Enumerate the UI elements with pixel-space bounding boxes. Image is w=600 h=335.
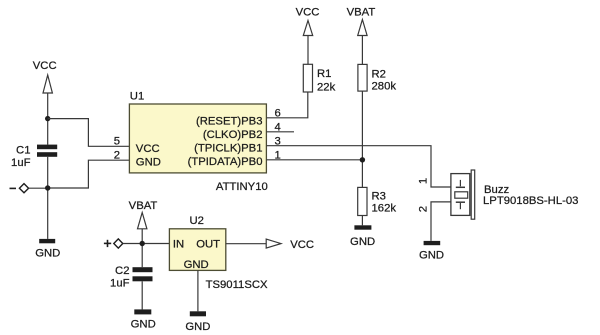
svg-text:GND: GND <box>185 321 210 333</box>
label R2 280k <box>372 69 397 93</box>
resistor R2 <box>358 64 367 91</box>
svg-text:1uF: 1uF <box>110 277 130 289</box>
buzzer Buzz body <box>451 174 470 216</box>
svg-text:OUT: OUT <box>196 238 220 250</box>
svg-text:GND: GND <box>131 319 156 331</box>
svg-text:VCC: VCC <box>33 60 57 72</box>
svg-text:IN: IN <box>173 238 184 250</box>
wire VBAT down to C2 <box>141 229 143 267</box>
svg-text:LPT9018BS-HL-03: LPT9018BS-HL-03 <box>483 195 578 207</box>
wire R3 bottom to ground <box>361 216 363 226</box>
wire U1 pin 3 to buzzer pin 1 <box>266 146 451 187</box>
wire VCC to R1 top <box>307 36 309 65</box>
resistor R3 <box>358 187 367 215</box>
label C1 value 1uF <box>11 144 31 169</box>
ground (R3) <box>350 225 375 248</box>
wire U2 OUT to VCC arrow <box>226 243 266 245</box>
svg-text:VCC: VCC <box>136 143 160 155</box>
svg-text:2: 2 <box>417 206 429 212</box>
svg-text:R2: R2 <box>372 69 386 81</box>
wire VCC rail down to C1 <box>47 93 49 145</box>
wire U1 pin 1 to divider node <box>266 159 362 161</box>
svg-text:U2: U2 <box>190 215 204 227</box>
wire U1 pin 2 (GND) to ground rail <box>48 160 130 188</box>
svg-text:5: 5 <box>114 136 120 148</box>
svg-text:U1: U1 <box>130 91 144 103</box>
power symbol VCC (U2 output arrow) <box>266 239 314 251</box>
resistor R1 <box>303 64 312 92</box>
power symbol VCC (top-left, C1 rail) <box>33 60 57 93</box>
svg-text:1uF: 1uF <box>11 157 31 169</box>
wire minus terminal to ground rail <box>29 187 48 189</box>
wire plus terminal to U2 IN <box>123 243 170 245</box>
svg-text:C2: C2 <box>115 265 129 277</box>
svg-text:280k: 280k <box>372 80 397 92</box>
regulator U2 body <box>169 229 225 271</box>
buzzer sounder bar <box>471 170 475 219</box>
svg-text:VCC: VCC <box>296 6 320 18</box>
power symbol VCC (above R1) <box>296 6 320 35</box>
svg-text:VBAT: VBAT <box>347 6 376 18</box>
svg-text:GND: GND <box>419 249 444 261</box>
power symbol VBAT (above R2) <box>347 6 376 35</box>
svg-text:GND: GND <box>350 236 375 248</box>
battery plus terminal <box>104 239 123 248</box>
svg-text:R1: R1 <box>317 68 331 80</box>
node junction ground rail <box>45 185 50 190</box>
svg-text:GND: GND <box>35 248 60 260</box>
svg-text:162k: 162k <box>372 203 397 215</box>
wire U1 pin 4 stub <box>266 131 294 133</box>
battery minus terminal <box>10 184 29 193</box>
svg-text:VCC: VCC <box>290 239 314 251</box>
svg-text:GND: GND <box>184 259 209 271</box>
svg-text:(CLKO)PB2: (CLKO)PB2 <box>203 129 263 141</box>
svg-text:GND: GND <box>136 156 161 168</box>
ground (U2) <box>185 311 210 333</box>
node junction VCC rail / pin5 tap <box>45 116 50 121</box>
wire buzzer pin 2 to ground <box>431 202 451 241</box>
svg-text:R3: R3 <box>372 190 386 202</box>
wire junction to U1 pin 5 (VCC) <box>48 119 130 147</box>
ground (C1) <box>35 239 60 260</box>
wire C2 bottom to ground <box>141 281 143 309</box>
power symbol VBAT (above U2) <box>129 200 158 229</box>
svg-text:(TPIDATA)PB0: (TPIDATA)PB0 <box>188 156 263 168</box>
label R3 162k <box>372 190 397 214</box>
label Buzz LPT9018BS-HL-03 <box>483 184 578 207</box>
svg-text:VBAT: VBAT <box>129 200 158 212</box>
svg-text:(TPICLK)PB1: (TPICLK)PB1 <box>194 143 262 155</box>
node junction VBAT / U2 IN <box>140 241 145 246</box>
wire R2 bottom to R3 top <box>361 91 363 187</box>
wire VBAT to R2 top <box>361 36 363 65</box>
wire U1 pin 6 to R1 <box>266 92 307 118</box>
svg-text:2: 2 <box>114 150 120 162</box>
wire U2 GND pin to ground <box>197 270 199 311</box>
label R1 22k <box>317 68 336 93</box>
svg-text:C1: C1 <box>16 144 30 156</box>
svg-text:TS9011SCX: TS9011SCX <box>206 279 268 291</box>
label C2 value 1uF <box>110 265 130 289</box>
wire C1 bottom to ground junction <box>47 157 49 239</box>
svg-text:Buzz: Buzz <box>484 184 509 196</box>
ground (buzzer) <box>419 241 444 262</box>
capacitor C2 plates <box>133 267 153 281</box>
svg-text:(RESET)PB3: (RESET)PB3 <box>196 115 263 127</box>
svg-text:22k: 22k <box>317 82 336 94</box>
capacitor C1 plates <box>37 145 57 157</box>
svg-text:ATTINY10: ATTINY10 <box>216 181 268 193</box>
node junction divider <box>360 157 365 162</box>
svg-text:1: 1 <box>417 178 429 184</box>
IC U1 ATTINY10 body <box>129 104 266 173</box>
buzzer piezo element <box>455 180 468 209</box>
ground (C2) <box>131 309 156 330</box>
